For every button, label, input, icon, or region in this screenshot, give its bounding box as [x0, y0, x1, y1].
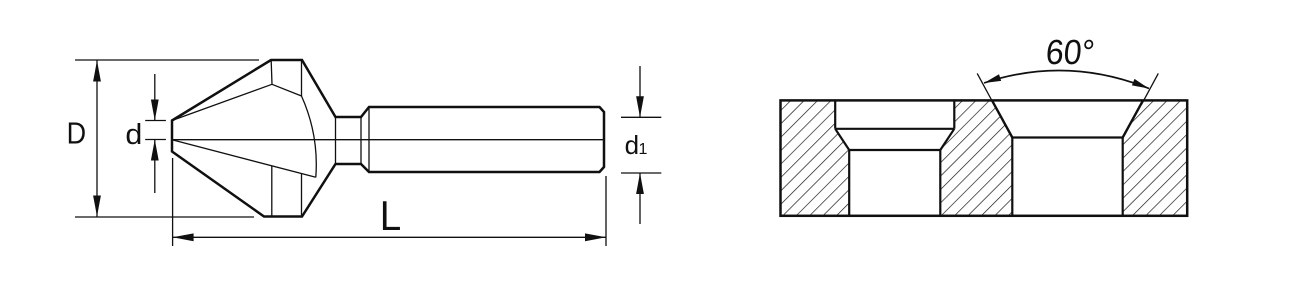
svg-text:L: L	[380, 191, 401, 239]
arrow D bottom	[93, 196, 101, 217]
neck edge verticals	[336, 107, 370, 172]
arrowheads	[93, 61, 1149, 242]
dimension d arrow lines	[154, 74, 156, 193]
dimension D extension lines	[75, 60, 259, 217]
60 deg arc	[984, 71, 1149, 89]
flute arc	[302, 96, 317, 177]
lower flute verticals	[272, 166, 302, 217]
svg-text:d: d	[625, 130, 639, 160]
countersink cone edges	[992, 100, 1143, 137]
dimension L extension lines	[173, 158, 606, 246]
60 deg extension lines	[977, 73, 1158, 104]
workpiece outline	[781, 100, 1188, 215]
dimension d ticks	[145, 121, 166, 140]
countersink cone-cylinder edge	[1012, 136, 1122, 138]
left hole bore walls	[849, 150, 940, 216]
svg-text:d: d	[125, 119, 142, 151]
center flute line	[173, 139, 605, 141]
arrow d1 bottom	[636, 173, 644, 194]
left hole chamfers	[835, 129, 954, 150]
hatch right block	[1123, 100, 1188, 215]
arrow d bottom	[151, 140, 159, 161]
left hole counterbore bottom edge	[835, 128, 954, 130]
svg-text:60°: 60°	[1044, 34, 1096, 72]
countersink tool outline	[172, 60, 604, 217]
hatch middle block	[940, 100, 1012, 215]
left hole counterbore walls	[835, 100, 954, 128]
upper flute lines	[172, 61, 302, 121]
arrow D top	[93, 61, 101, 82]
arrow d1 top	[636, 96, 644, 117]
svg-text:D: D	[67, 117, 86, 151]
dimension d1 ticks	[621, 117, 661, 173]
arrow 60deg left	[984, 74, 1001, 83]
left hole cone-cylinder edge	[849, 149, 940, 151]
dimension L line	[173, 236, 606, 238]
countersink bore walls	[1012, 138, 1122, 216]
arrow d top	[151, 100, 159, 121]
dimension d1 arrow lines	[639, 66, 641, 224]
arrow L right	[585, 233, 606, 241]
lower flute line	[172, 140, 316, 178]
arrow L left	[173, 233, 194, 241]
dimension D line	[96, 60, 98, 217]
arrow 60deg right	[1132, 79, 1149, 89]
svg-text:1: 1	[639, 141, 648, 158]
hatch left block	[781, 100, 850, 215]
